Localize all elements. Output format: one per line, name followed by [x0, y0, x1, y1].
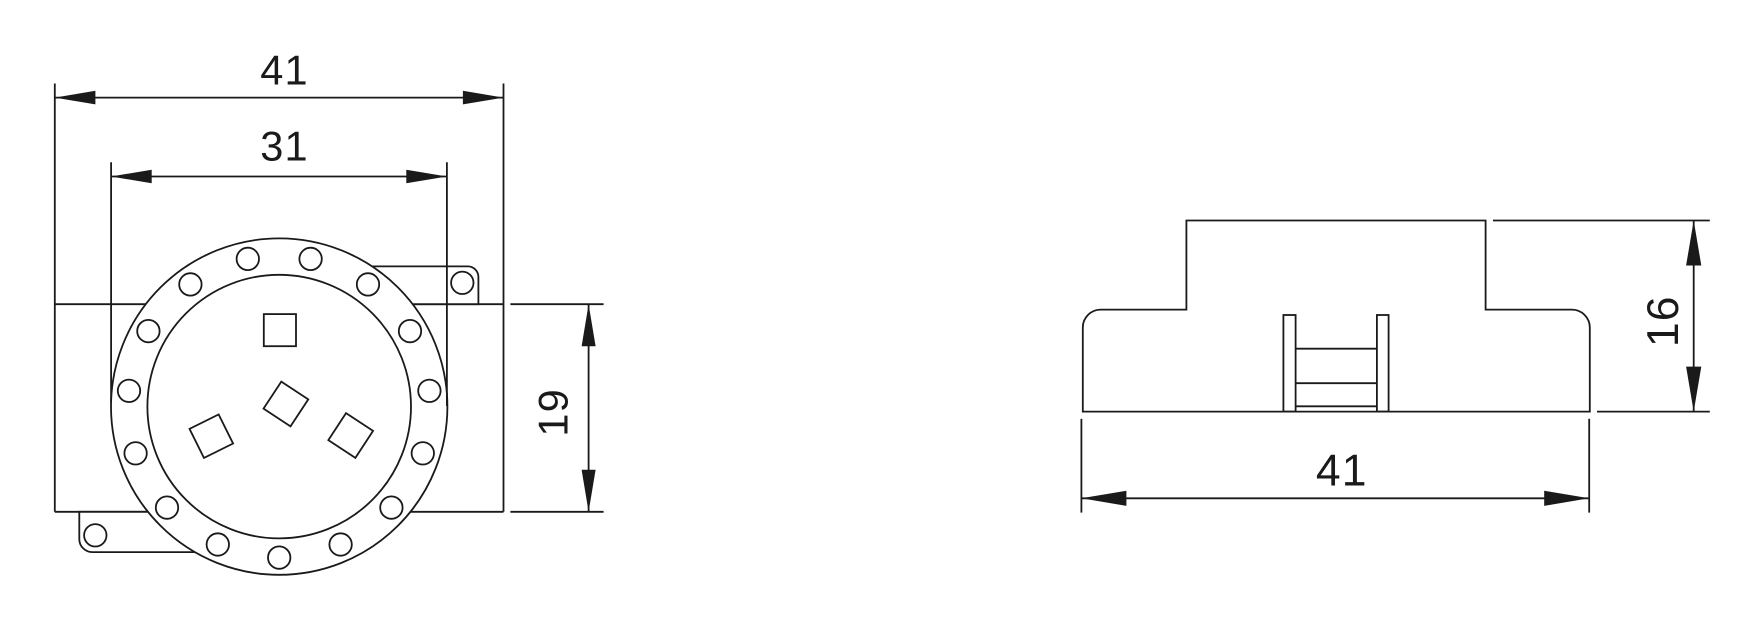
dimension 31: dim line: [111, 176, 447, 178]
dimension 41 bottom: extension lines: [1081, 419, 1589, 513]
dimension 16: extension lines: [1493, 221, 1710, 412]
clip rung lower: [1296, 382, 1377, 384]
svg-text:16: 16: [1639, 295, 1688, 347]
tab screw hole top-right: [451, 272, 473, 294]
dimension 31: right arrowhead: [406, 170, 447, 184]
svg-text:41: 41: [260, 46, 309, 93]
dimension 19: extension lines: [510, 304, 603, 512]
dimension 16: bottom arrowhead: [1686, 367, 1701, 412]
dimension 41 bottom: left arrowhead: [1081, 491, 1126, 506]
dimension 19: bottom arrowhead: [582, 470, 596, 512]
dimension 16: dim line: [1693, 221, 1695, 412]
dimension 19: dim line: [588, 304, 590, 512]
svg-text:19: 19: [530, 388, 577, 437]
dimension 41 top: dim line: [55, 97, 504, 99]
socket face inner circle: [147, 275, 411, 539]
15 flange bolt holes: [118, 248, 441, 569]
svg-text:41: 41: [1316, 446, 1368, 495]
dimension 19: top arrowhead: [582, 304, 596, 346]
dimension 16: top arrowhead: [1686, 221, 1701, 266]
front view: socket body rectangle (left/right edges double as dim-41 extension lines): [55, 84, 504, 512]
flange outer circle: [111, 238, 447, 574]
dimension 31: left arrowhead: [111, 170, 152, 184]
dimension 41 top: right arrowhead: [463, 91, 504, 105]
dimension 41 bottom: right arrowhead: [1544, 491, 1589, 506]
DIN-rail clip left rail: [1283, 315, 1295, 412]
tab screw hole bottom-left: [84, 524, 106, 546]
dimension 41 top: left arrowhead: [55, 91, 96, 105]
svg-text:31: 31: [260, 123, 309, 170]
clip channel bottom: [1296, 405, 1377, 407]
mounting tab bottom-left with rounded corner: [79, 512, 200, 552]
center pin slot (rotated square): [264, 382, 309, 427]
right pin slot (rotated square): [328, 413, 373, 458]
dimension 41 bottom: dim line: [1081, 497, 1589, 499]
dimension 31: extension lines: [111, 162, 447, 406]
DIN-rail clip right rail: [1377, 315, 1389, 412]
mounting tab top-right with rounded corner: [370, 266, 478, 304]
side view body outline with raised top and rounded shoulders: [1083, 221, 1590, 412]
clip rung upper: [1296, 348, 1377, 350]
earth pin slot (square, top): [264, 314, 296, 346]
left pin slot (rotated square): [190, 414, 234, 458]
